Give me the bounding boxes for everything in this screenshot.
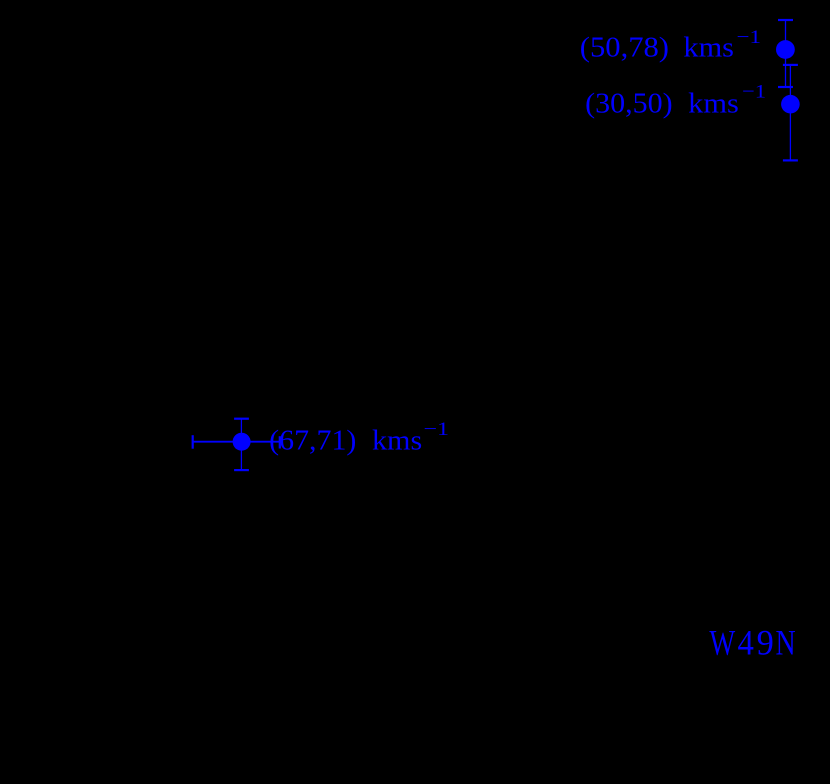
P2 bottom cap [783,159,798,161]
svg-text:N: N [776,622,796,662]
svg-text:9: 9 [757,622,774,662]
svg-text:kms: kms [688,88,739,120]
svg-text:(30,50): (30,50) [585,88,673,120]
P1 bottom cap [778,86,793,88]
P3 horizontal right cap [279,436,281,448]
svg-text:kms: kms [683,31,734,63]
P3 horizontal left cap [192,435,194,449]
P2 marker circle [781,95,800,114]
data point P2 (30,50) error bar vertical line [789,65,791,160]
svg-text:−1: −1 [737,27,762,48]
svg-text:−1: −1 [742,81,766,102]
svg-text:(50,78): (50,78) [580,31,669,63]
data point P1 (50,78) error bar vertical line [785,20,787,87]
P3 marker circle [233,433,251,451]
svg-text:4: 4 [738,622,755,662]
P1 marker circle [776,40,795,59]
P1 top cap [778,19,793,21]
data point P3 (67,71) vertical error bar line [240,419,242,470]
svg-text:W: W [709,622,735,662]
svg-text:−1: −1 [424,419,450,440]
P2 top cap [783,64,798,66]
P3 vertical bottom cap [234,469,249,471]
P3 horizontal error bar line [193,441,280,443]
P3 vertical top cap [234,418,249,420]
svg-text:kms: kms [372,425,422,457]
svg-text:(67,71): (67,71) [269,425,356,457]
